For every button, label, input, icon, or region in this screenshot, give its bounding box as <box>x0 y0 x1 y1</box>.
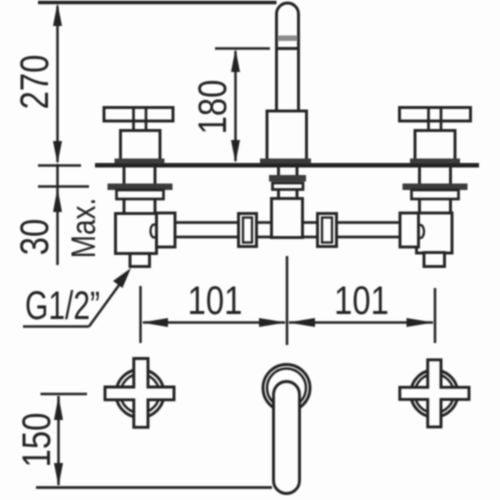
svg-text:30: 30 <box>12 219 57 255</box>
left pipe bottom line <box>175 236 272 239</box>
dimension 101 left line <box>142 318 287 327</box>
right valve body <box>417 213 453 253</box>
max 30 tick lower <box>38 185 89 188</box>
dimension 150 tick <box>41 393 88 396</box>
left pipe top line <box>175 221 272 224</box>
left shank lower <box>124 199 155 214</box>
dimension 150 line <box>54 396 63 487</box>
right handle stem <box>429 107 442 131</box>
right shank lower <box>420 199 451 213</box>
svg-text:180: 180 <box>190 80 235 135</box>
left handle base flange <box>115 159 165 164</box>
right handle base flange <box>410 159 460 164</box>
dimension 180 line <box>231 49 240 163</box>
spout mounting nut <box>269 175 306 182</box>
left valve outlet ellipse <box>151 225 158 238</box>
right pipe bottom line <box>303 236 401 239</box>
left plan handle cross <box>105 359 174 428</box>
left handle body <box>121 131 161 161</box>
right valve outlet ellipse <box>417 225 424 238</box>
svg-text:101: 101 <box>334 278 389 323</box>
right mounting nut <box>403 184 468 191</box>
svg-text:150: 150 <box>14 413 59 468</box>
right valve fitting <box>400 213 419 247</box>
dimension 180 tick <box>215 47 270 50</box>
dimension 101 right line <box>288 318 434 327</box>
right shank upper <box>420 167 451 184</box>
dimension 30 line <box>53 164 62 265</box>
right pipe top line <box>303 221 401 224</box>
top reference line <box>38 1 277 5</box>
spout shank upper <box>279 167 298 175</box>
left valve body <box>116 214 157 254</box>
bottom reference line <box>36 486 272 489</box>
left valve inlet <box>130 254 150 267</box>
left handle stem <box>134 107 147 131</box>
spout locknut <box>273 183 304 190</box>
right valve inlet <box>424 253 445 267</box>
svg-text:270: 270 <box>12 55 57 110</box>
left pipe coupling <box>239 214 257 247</box>
svg-text:101: 101 <box>188 278 243 323</box>
spout plan stadium <box>274 382 300 494</box>
spout base flange <box>260 159 311 164</box>
right plan handle rings <box>411 370 458 417</box>
spout plan rings <box>263 365 310 412</box>
left shank upper <box>124 167 155 184</box>
G1/2 underline <box>23 325 89 328</box>
right extension line <box>434 288 437 343</box>
dimension 270 line <box>53 3 62 164</box>
left mounting nut <box>108 184 173 191</box>
center tee body <box>272 199 303 238</box>
right handle body <box>415 131 455 161</box>
deck line <box>95 163 479 168</box>
right pipe coupling <box>318 214 337 247</box>
spout base <box>267 111 307 161</box>
spout aerator line <box>277 47 299 50</box>
left handle cross bar <box>104 108 173 122</box>
svg-text:Max.: Max. <box>64 198 102 258</box>
left locknut <box>117 190 164 199</box>
svg-text:G1/2”: G1/2” <box>25 284 100 328</box>
left plan handle rings <box>116 370 164 418</box>
max 30 tick upper <box>38 164 81 167</box>
right plan handle cross <box>400 360 469 427</box>
left extension line <box>139 286 142 343</box>
right locknut <box>412 190 459 199</box>
spout shank lower <box>279 190 298 200</box>
G1/2 leader arrow <box>89 268 131 327</box>
right handle cross bar <box>400 108 471 122</box>
spout gray band <box>278 36 298 42</box>
center extension line <box>286 256 289 345</box>
left valve fitting <box>157 213 176 247</box>
spout tube <box>277 3 299 112</box>
